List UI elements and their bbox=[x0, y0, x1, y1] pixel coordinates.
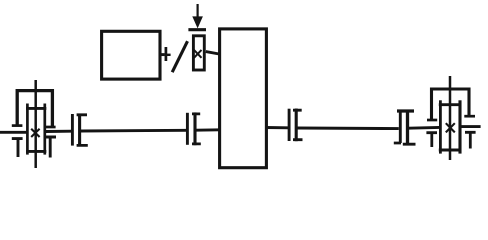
wire: right unit output shaft bbox=[461, 125, 480, 128]
coupling C2 right flange bbox=[193, 112, 196, 145]
right bearing box top bar bbox=[439, 103, 462, 106]
coupling C1 caps bbox=[77, 115, 88, 146]
wire: shaft C1 to C2 bbox=[81, 129, 186, 133]
brake arm (diagonal band) bbox=[172, 41, 187, 72]
left pedestal T left bbox=[12, 139, 23, 157]
motor M1 bbox=[102, 31, 160, 79]
coupling C3 right flange bbox=[295, 109, 298, 142]
left bearing box left edge bbox=[26, 104, 29, 155]
left bearing cross bbox=[31, 129, 39, 137]
left unit housing bracket bbox=[17, 91, 52, 127]
left bearing box top bar bbox=[26, 107, 46, 110]
wire: left output shaft entering image bbox=[0, 131, 28, 134]
gearbox reducer U1 bbox=[220, 29, 267, 168]
right pedestal T left bbox=[426, 133, 437, 147]
right bracket foot left bbox=[427, 119, 437, 122]
coupling C1 right flange bbox=[78, 114, 81, 147]
right unit housing bracket bbox=[432, 89, 470, 119]
coupling C4 left flange bbox=[399, 111, 402, 143]
right bearing cross bbox=[446, 123, 455, 132]
wire: shaft C2 to gearbox bbox=[196, 128, 219, 131]
wire: shaft stub after flange bbox=[167, 54, 171, 56]
left bracket foot right bbox=[44, 126, 56, 129]
coupling C1 left flange bbox=[71, 114, 74, 146]
wire: shaft C4 to right unit bbox=[409, 126, 440, 130]
wire: motor output shaft bbox=[160, 53, 165, 56]
right bearing box bottom bar bbox=[439, 149, 462, 152]
right bracket foot right bbox=[464, 115, 475, 118]
left unit vertical shaft bbox=[34, 80, 37, 168]
coupling C2 left flange bbox=[186, 113, 189, 145]
coupling C4 bottom caps bbox=[394, 143, 416, 144]
brake force arrow bbox=[192, 4, 203, 28]
coupling C3 caps bbox=[293, 110, 303, 140]
left pedestal T right bbox=[44, 137, 56, 158]
left bracket foot left bbox=[12, 124, 23, 127]
brake wheel B1 (box) bbox=[193, 36, 204, 70]
wire: shaft from left unit to coupling C1 bbox=[46, 130, 71, 133]
brake wheel bearing cross bbox=[194, 50, 202, 58]
right bearing box left edge bbox=[439, 100, 442, 153]
right unit vertical shaft bbox=[449, 76, 452, 160]
coupling C4 right flange bbox=[406, 111, 409, 144]
left bearing box bottom bar bbox=[26, 150, 46, 153]
coupling half flange on motor shaft bbox=[165, 47, 168, 61]
coupling C2 caps bbox=[192, 114, 201, 144]
left bearing box right edge bbox=[43, 104, 46, 155]
brake shoe top bar bbox=[188, 28, 206, 31]
wire: gearbox right output shaft bbox=[265, 126, 288, 129]
right bearing box right edge bbox=[458, 100, 461, 153]
wire: reducer input shaft bbox=[206, 52, 219, 54]
right pedestal T right bbox=[465, 132, 476, 148]
coupling C3 left flange bbox=[288, 109, 291, 141]
wire: shaft C3 to C4 bbox=[297, 127, 398, 131]
coupling C4 top cap bbox=[397, 109, 414, 112]
